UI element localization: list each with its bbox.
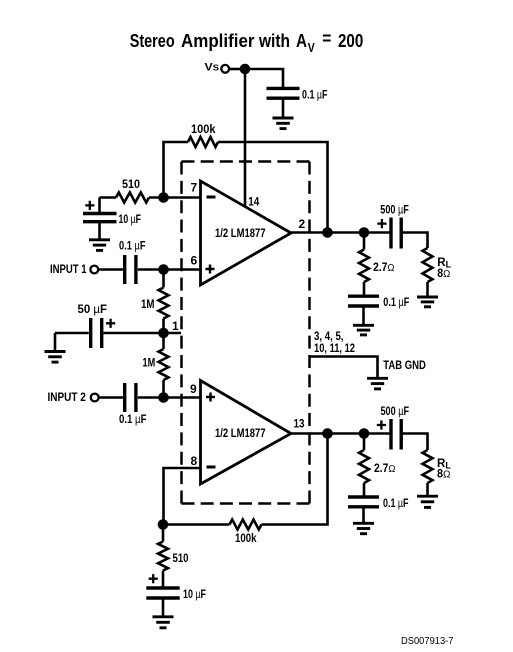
junction dot zobel node 1 — [359, 227, 370, 238]
svg-text:1/2 LM1877: 1/2 LM1877 — [215, 228, 266, 240]
capacitor 0.1uF input 1 coupling — [125, 255, 136, 284]
wire 500uF cap 1 to RL 1 — [403, 233, 428, 249]
wire feedback 1 : 100k right down to output node — [218, 142, 328, 233]
wire 510 resistor to pin 7 — [149, 196, 201, 199]
wire feedback node down to 510 lower — [162, 525, 165, 542]
junction dot output node 1 — [322, 227, 333, 238]
ground 10uF lower — [153, 615, 174, 618]
svg-text:3, 4, 5,: 3, 4, 5, — [314, 331, 344, 343]
capacitor 10uF upper — [83, 214, 117, 222]
wire feedback node to 100k lower — [163, 523, 230, 526]
svg-text:0.1 µF: 0.1 µF — [302, 90, 328, 102]
svg-text:0.1 µF: 0.1 µF — [119, 241, 146, 253]
junction dot node 1 bias — [158, 328, 169, 339]
wire feedback 1 : pin7 node up and right to 100k — [164, 142, 189, 198]
ground zobel 2 — [353, 522, 374, 525]
resistor R 100k upper feedback — [188, 137, 218, 147]
wire VS terminal to junction — [229, 68, 245, 71]
wire INPUT 1 to coupling cap — [99, 268, 123, 271]
wire coupling cap 1 to pin 6 — [138, 268, 201, 271]
svg-text:1/2 LM1877: 1/2 LM1877 — [215, 428, 266, 440]
wire RL 2 to ground — [426, 483, 429, 496]
terminal INPUT 2 — [91, 394, 99, 402]
svg-text:10 µF: 10 µF — [183, 589, 206, 601]
wire ground to 50uF cap — [55, 332, 89, 335]
resistor 2.7 ohm channel 1 — [359, 250, 369, 283]
svg-text:500 µF: 500 µF — [380, 204, 409, 216]
op-amp U1B 1/2 LM1877 — [201, 381, 292, 485]
svg-text:13: 13 — [294, 416, 305, 430]
wire pin 8 to lower feedback node — [164, 468, 201, 525]
ground 50uF — [45, 350, 66, 353]
wire VS junction down to pin 14 — [244, 69, 247, 207]
svg-text:VS: VS — [205, 62, 220, 74]
resistor 1M upper — [159, 288, 169, 319]
terminal INPUT 1 — [90, 266, 98, 274]
svg-text:7: 7 — [191, 180, 198, 194]
resistor 2.7 ohm channel 2 — [359, 450, 369, 483]
capacitor 500uF output 1 — [391, 218, 401, 249]
capacitor 10uF lower — [146, 588, 179, 598]
svg-text:8Ω: 8Ω — [437, 469, 451, 481]
wire output 1 row — [291, 231, 389, 234]
op-amp U1A 1/2 LM1877 — [201, 181, 292, 285]
ground zobel 1 — [353, 324, 374, 327]
svg-text:0.1 µF: 0.1 µF — [119, 414, 147, 426]
svg-text:1: 1 — [172, 319, 179, 333]
resistor 510 lower — [158, 542, 168, 571]
capacitor 0.1uF input 2 coupling — [125, 383, 136, 412]
resistor 100k lower feedback — [230, 520, 262, 530]
svg-text:8: 8 — [191, 454, 198, 468]
op-amp U1A non-inverting mark — [206, 265, 215, 274]
wire node 1 down to 1M lower — [162, 333, 165, 349]
polarity + 10uF lower — [149, 574, 158, 583]
polarity + 10uF upper — [85, 201, 94, 210]
svg-text:1M: 1M — [141, 299, 155, 311]
svg-text:2.7Ω: 2.7Ω — [374, 463, 396, 475]
svg-text:V: V — [308, 41, 316, 55]
junction dot pin7 feedback node — [158, 192, 169, 203]
svg-text:10, 11, 12: 10, 11, 12 — [314, 343, 355, 355]
junction dot output node 2 — [322, 428, 333, 439]
svg-text:10 µF: 10 µF — [119, 214, 142, 226]
title — [130, 29, 364, 56]
svg-text:50 µF: 50 µF — [78, 304, 108, 316]
op-amp U1A inverting mark — [207, 196, 216, 199]
wire 500uF cap 2 to RL 2 — [403, 434, 428, 451]
svg-text:100k: 100k — [235, 533, 257, 545]
polarity + 500uF 2 — [377, 420, 386, 429]
ground 10uF upper — [89, 238, 110, 241]
wire VS junction to bypass cap — [245, 69, 283, 87]
wire TAB GND — [310, 357, 378, 379]
wire 2.7ohm 2 to 0.1uF zobel 2 — [363, 483, 366, 496]
op-amp U1B non-inverting mark — [206, 393, 215, 402]
capacitor 0.1uF zobel 2 — [348, 497, 379, 507]
resistor 510 upper — [116, 193, 149, 203]
wire 100k lower to output node 2 — [262, 434, 328, 525]
capacitor 50uF — [91, 318, 102, 348]
terminal VS — [221, 65, 229, 73]
svg-text:9: 9 — [190, 382, 197, 396]
wire 10uF cap to 510 resistor — [100, 196, 117, 199]
wire bypass cap to ground — [282, 99, 285, 118]
wire 10uF lower to ground — [162, 600, 165, 618]
junction dot zobel node 2 — [359, 428, 370, 439]
svg-text:Stereo: Stereo — [130, 31, 175, 51]
wire 1M lower to pin 9 node — [162, 380, 165, 398]
junction dot pin8 feedback node — [158, 519, 169, 530]
wire 50uF cap to node 1 stub — [104, 332, 182, 335]
wire 10uF branch vertical — [98, 198, 101, 213]
svg-text:INPUT 1: INPUT 1 — [50, 264, 87, 276]
wire RL 1 to ground — [426, 282, 429, 298]
IC package dashed boundary box — [182, 162, 310, 504]
svg-text:510: 510 — [122, 179, 140, 191]
capacitor 500uF output 2 — [391, 419, 401, 450]
wire zobel cap 2 to ground — [362, 508, 365, 523]
op-amp U1B inverting mark — [207, 466, 216, 469]
capacitor 0.1uF supply bypass — [267, 88, 300, 98]
ground RL 2 — [417, 495, 438, 498]
wire 510 lower to 10uF lower — [162, 571, 165, 587]
junction dot pin9 input node — [158, 392, 169, 403]
svg-text:1M: 1M — [143, 357, 156, 369]
svg-text:with: with — [258, 31, 290, 51]
wire 10uF cap bottom to ground — [98, 223, 101, 240]
ground supply bypass — [273, 117, 294, 120]
svg-text:14: 14 — [248, 194, 259, 208]
wire 2.7ohm 1 to 0.1uF zobel 1 — [363, 282, 366, 295]
svg-text:Amplifier: Amplifier — [181, 31, 255, 51]
svg-text:A: A — [296, 31, 307, 51]
ground RL 1 — [417, 296, 438, 299]
capacitor 0.1uF zobel 1 — [348, 296, 379, 306]
svg-text:=: = — [322, 29, 331, 49]
svg-text:0.1 µF: 0.1 µF — [383, 498, 409, 510]
wire output node 2 to 2.7ohm 2 — [363, 434, 366, 451]
resistor RL 8 ohm channel 2 — [423, 450, 433, 483]
resistor RL 8 ohm channel 1 — [423, 248, 433, 282]
svg-text:510: 510 — [173, 553, 189, 565]
svg-text:500 µF: 500 µF — [381, 406, 410, 418]
wire zobel cap 1 to ground — [362, 308, 365, 327]
svg-text:8Ω: 8Ω — [437, 268, 450, 280]
svg-text:100k: 100k — [191, 124, 216, 136]
svg-text:2: 2 — [299, 217, 306, 231]
wire 1M to node 1 — [162, 319, 165, 334]
svg-text:0.1 µF: 0.1 µF — [383, 297, 409, 309]
polarity + 50uF — [106, 319, 115, 328]
svg-text:TAB GND: TAB GND — [383, 360, 426, 372]
svg-text:2.7Ω: 2.7Ω — [373, 262, 395, 274]
polarity + 500uF 1 — [377, 219, 386, 228]
wire INPUT 2 to coupling cap — [100, 396, 124, 399]
wire pin6 node down to 1M — [162, 270, 165, 288]
svg-text:INPUT 2: INPUT 2 — [48, 392, 86, 404]
resistor 1M lower — [159, 349, 169, 380]
svg-text:DS007913-7: DS007913-7 — [401, 635, 454, 647]
wire output 2 row — [291, 432, 389, 435]
wire output node to 2.7ohm 1 — [363, 233, 366, 250]
svg-text:6: 6 — [191, 254, 198, 268]
wire coupling cap 2 to pin 9 — [138, 396, 201, 399]
junction dot VS junction — [240, 64, 251, 75]
wire 50uF ground stem — [54, 333, 57, 352]
ground TAB — [367, 377, 388, 380]
junction dot pin6 input node — [158, 264, 169, 275]
svg-text:200: 200 — [338, 31, 363, 51]
